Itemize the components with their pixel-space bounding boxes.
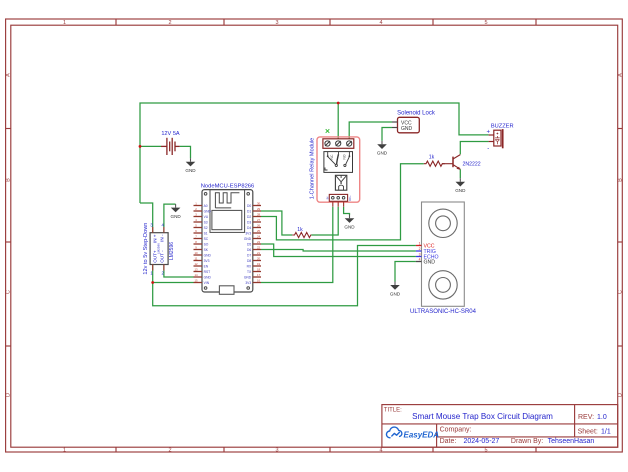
svg-text:2: 2 [419, 247, 421, 251]
svg-text:D6: D6 [247, 248, 251, 252]
svg-text:EN: EN [204, 264, 209, 268]
svg-text:Smart Mouse Trap Box Circuit D: Smart Mouse Trap Box Circuit Diagram [412, 412, 553, 421]
svg-text:1: 1 [63, 448, 66, 454]
svg-text:VU: VU [204, 215, 209, 219]
svg-text:13: 13 [194, 268, 198, 272]
svg-text:15: 15 [194, 279, 198, 283]
svg-text:Date:: Date: [440, 438, 457, 445]
svg-text:D8: D8 [247, 259, 251, 263]
svg-text:EasyEDA: EasyEDA [404, 431, 440, 440]
svg-text:DC+: DC+ [348, 195, 352, 201]
svg-text:RST: RST [204, 270, 211, 274]
svg-text:GND: GND [244, 237, 252, 241]
svg-text:TITLE:: TITLE: [384, 408, 402, 414]
svg-text:12V 5A: 12V 5A [161, 131, 180, 137]
svg-text:3V3: 3V3 [245, 231, 251, 235]
svg-text:Company:: Company: [440, 427, 472, 434]
svg-text:Drawn By:: Drawn By: [511, 438, 543, 445]
svg-text:14: 14 [194, 273, 198, 277]
svg-text:D4: D4 [247, 226, 251, 230]
svg-text:11: 11 [195, 257, 198, 261]
svg-text:B: B [6, 178, 12, 182]
svg-text:1: 1 [419, 242, 421, 246]
svg-text:12v to 5v Step-Down: 12v to 5v Step-Down [143, 223, 149, 275]
svg-text:4: 4 [419, 258, 421, 262]
svg-text:C: C [6, 290, 12, 294]
svg-text:LM2596: LM2596 [156, 243, 160, 254]
svg-text:IN: IN [326, 197, 330, 200]
svg-text:1-Channel Relay Module: 1-Channel Relay Module [309, 138, 315, 200]
svg-text:GND: GND [204, 209, 212, 213]
svg-text:GND: GND [244, 275, 252, 279]
svg-text:2: 2 [168, 448, 171, 454]
svg-text:S1: S1 [204, 231, 208, 235]
svg-text:D: D [6, 393, 12, 397]
svg-text:NO: NO [343, 154, 347, 159]
svg-text:24: 24 [257, 235, 261, 239]
svg-text:26: 26 [257, 224, 261, 228]
svg-text:SO: SO [204, 242, 209, 246]
svg-text:3: 3 [275, 20, 278, 26]
svg-text:D: D [618, 393, 624, 397]
svg-text:S2: S2 [204, 226, 208, 230]
svg-text:TehseenHasan: TehseenHasan [548, 438, 595, 445]
svg-text:29: 29 [257, 207, 261, 211]
svg-text:1k: 1k [297, 227, 303, 233]
svg-text:RX: RX [247, 264, 252, 268]
svg-text:SC: SC [204, 237, 209, 241]
svg-text:IN -: IN - [160, 234, 165, 242]
svg-text:1: 1 [63, 20, 66, 26]
svg-text:12: 12 [194, 262, 198, 266]
svg-text:10: 10 [194, 251, 198, 255]
svg-text:3V3: 3V3 [204, 259, 210, 263]
svg-text:2024-05-27: 2024-05-27 [464, 438, 500, 445]
svg-text:D2: D2 [247, 215, 251, 219]
svg-text:LM2596: LM2596 [169, 242, 175, 260]
svg-text:21: 21 [257, 251, 261, 255]
svg-text:D0: D0 [247, 204, 251, 208]
svg-text:VIN: VIN [204, 281, 210, 285]
svg-text:GND: GND [401, 126, 413, 132]
svg-text:28: 28 [257, 213, 261, 217]
svg-text:D1: D1 [247, 209, 251, 213]
svg-text:NodeMCU-ESP8266: NodeMCU-ESP8266 [201, 184, 255, 190]
svg-text:D5: D5 [247, 242, 251, 246]
svg-text:-: - [487, 146, 489, 152]
svg-text:1k: 1k [429, 155, 435, 161]
svg-text:A0: A0 [204, 204, 208, 208]
svg-text:19: 19 [257, 262, 261, 266]
svg-text:NC: NC [330, 154, 334, 159]
svg-text:IN +: IN + [152, 234, 157, 243]
svg-text:2N2222: 2N2222 [463, 162, 481, 168]
svg-text:3V3: 3V3 [245, 281, 251, 285]
svg-text:1.0: 1.0 [597, 414, 607, 421]
svg-text:4: 4 [379, 20, 382, 26]
svg-text:A: A [6, 73, 12, 77]
svg-text:BUZZER: BUZZER [491, 124, 514, 130]
svg-text:Solenoid Lock: Solenoid Lock [397, 111, 436, 117]
svg-text:17: 17 [257, 273, 261, 277]
svg-text:3: 3 [419, 253, 421, 257]
svg-text:Sheet:: Sheet: [578, 429, 598, 436]
svg-text:C: C [618, 290, 624, 294]
svg-text:GND: GND [204, 253, 212, 257]
svg-text:23: 23 [257, 240, 261, 244]
svg-text:22: 22 [257, 246, 261, 250]
svg-text:1/1: 1/1 [601, 429, 611, 436]
svg-text:25: 25 [257, 229, 261, 233]
svg-text:B: B [618, 178, 624, 182]
svg-text:2: 2 [168, 20, 171, 26]
svg-text:27: 27 [257, 218, 261, 222]
svg-text:4: 4 [379, 448, 382, 454]
svg-text:S3: S3 [204, 220, 208, 224]
svg-text:D7: D7 [247, 253, 251, 257]
svg-text:D3: D3 [247, 220, 251, 224]
svg-text:5: 5 [484, 20, 487, 26]
svg-text:30: 30 [257, 202, 261, 206]
svg-text:REV:: REV: [578, 414, 594, 421]
svg-text:A: A [618, 73, 624, 77]
svg-text:16: 16 [257, 279, 261, 283]
svg-text:5: 5 [484, 448, 487, 454]
svg-text:+: + [486, 129, 490, 135]
svg-text:18: 18 [257, 268, 261, 272]
svg-text:ULTRASONIC-HC-SR04: ULTRASONIC-HC-SR04 [410, 309, 477, 315]
svg-text:20: 20 [257, 257, 261, 261]
svg-text:GND: GND [204, 275, 212, 279]
svg-text:GND: GND [424, 260, 436, 266]
svg-text:3: 3 [275, 448, 278, 454]
